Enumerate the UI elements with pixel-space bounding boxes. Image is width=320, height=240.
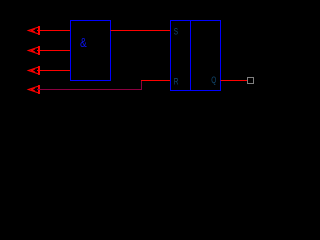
open terminal square	[248, 78, 254, 84]
SR latch U2 body	[171, 21, 221, 91]
input port C (double-chevron arrow)	[28, 66, 40, 75]
wire U2 Q output	[221, 80, 248, 82]
wire D horizontal (maroon net)	[37, 89, 142, 91]
svg-text:&: &	[80, 36, 87, 50]
SR latch U2 divider	[190, 21, 192, 91]
svg-text:R: R	[174, 77, 179, 87]
input port A (double-chevron arrow)	[28, 26, 40, 35]
input port B (double-chevron arrow)	[28, 46, 40, 55]
AND gate U1 body	[71, 21, 111, 81]
wire D vertical riser (maroon net)	[141, 80, 143, 90]
wire to U2 R input	[141, 80, 171, 82]
svg-text:S: S	[174, 27, 178, 37]
svg-text:Q: Q	[211, 75, 216, 85]
wire A to U1 pin1	[37, 30, 71, 32]
wire C to U1 pin3	[37, 70, 71, 72]
wire U1 output to U2 S input	[111, 30, 171, 32]
wire B to U1 pin2	[37, 50, 71, 52]
input port D (double-chevron arrow)	[28, 85, 40, 94]
